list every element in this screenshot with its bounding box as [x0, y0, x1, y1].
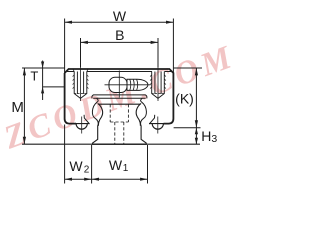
- svg-text:W: W: [69, 158, 83, 174]
- svg-text:(K): (K): [175, 91, 194, 107]
- svg-text:2: 2: [84, 165, 90, 176]
- svg-text:T: T: [30, 69, 38, 84]
- svg-text:W: W: [109, 157, 123, 173]
- svg-text:1: 1: [123, 163, 129, 174]
- svg-text:W: W: [113, 8, 127, 24]
- svg-text:M: M: [11, 99, 24, 116]
- svg-text:B: B: [115, 27, 124, 43]
- svg-text:H3: H3: [201, 128, 217, 145]
